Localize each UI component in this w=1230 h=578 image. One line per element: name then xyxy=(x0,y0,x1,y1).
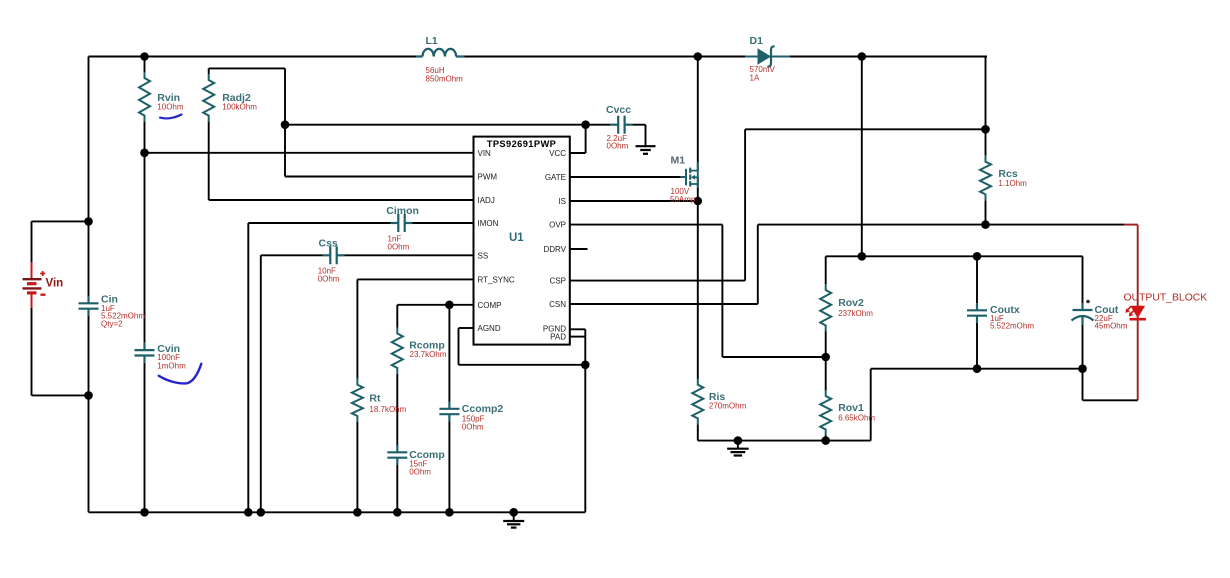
svg-text:18.7kOhm: 18.7kOhm xyxy=(369,405,406,414)
svg-text:0Ohm: 0Ohm xyxy=(409,468,431,477)
svg-text:Cvcc: Cvcc xyxy=(606,104,631,116)
svg-text:Cimon: Cimon xyxy=(386,205,419,217)
svg-text:VIN: VIN xyxy=(478,149,492,158)
svg-text:CSN: CSN xyxy=(549,300,566,309)
svg-text:1.1Ohm: 1.1Ohm xyxy=(998,179,1027,188)
svg-text:1A: 1A xyxy=(750,74,760,83)
svg-text:RT_SYNC: RT_SYNC xyxy=(478,275,515,284)
svg-text:270mOhm: 270mOhm xyxy=(709,402,747,411)
svg-text:CSP: CSP xyxy=(550,277,566,286)
svg-text:Qty=2: Qty=2 xyxy=(101,320,123,329)
svg-text:6.65kOhm: 6.65kOhm xyxy=(838,414,875,423)
svg-text:1mOhm: 1mOhm xyxy=(157,361,186,370)
svg-text:OUTPUT_BLOCK: OUTPUT_BLOCK xyxy=(1124,293,1208,304)
svg-text:IADJ: IADJ xyxy=(478,196,495,205)
svg-text:5.522mOhm: 5.522mOhm xyxy=(990,322,1034,331)
svg-text:10Ohm: 10Ohm xyxy=(157,102,184,111)
svg-text:TPS92691PWP: TPS92691PWP xyxy=(487,139,557,149)
svg-text:Ccomp2: Ccomp2 xyxy=(462,403,504,415)
svg-text:Rov2: Rov2 xyxy=(838,297,864,309)
svg-text:23.7kOhm: 23.7kOhm xyxy=(410,350,447,359)
svg-text:100kOhm: 100kOhm xyxy=(222,102,257,111)
svg-text:VCC: VCC xyxy=(549,149,566,158)
svg-text:0Ohm: 0Ohm xyxy=(462,423,484,432)
svg-text:D1: D1 xyxy=(750,35,764,47)
svg-text:U1: U1 xyxy=(509,232,524,244)
svg-text:Rov1: Rov1 xyxy=(838,402,864,414)
svg-text:AGND: AGND xyxy=(478,324,501,333)
svg-text:45mOhm: 45mOhm xyxy=(1095,322,1128,331)
svg-text:PWM: PWM xyxy=(478,173,498,182)
svg-text:M1: M1 xyxy=(671,155,686,167)
svg-text:850mOhm: 850mOhm xyxy=(426,75,464,84)
svg-text:IS: IS xyxy=(558,197,566,206)
svg-text:237kOhm: 237kOhm xyxy=(838,309,873,318)
svg-text:COMP: COMP xyxy=(478,301,502,310)
svg-text:L1: L1 xyxy=(426,35,438,47)
svg-text:0Ohm: 0Ohm xyxy=(318,275,340,284)
svg-text:Vin: Vin xyxy=(46,278,64,290)
svg-text:0Ohm: 0Ohm xyxy=(607,142,629,151)
svg-text:Css: Css xyxy=(319,238,338,250)
svg-text:0Ohm: 0Ohm xyxy=(388,243,410,252)
svg-text:IMON: IMON xyxy=(478,219,499,228)
svg-text:GATE: GATE xyxy=(545,173,566,182)
svg-text:DDRV: DDRV xyxy=(543,245,566,254)
svg-text:SS: SS xyxy=(478,251,489,260)
svg-text:PAD: PAD xyxy=(550,333,566,342)
svg-text:OVP: OVP xyxy=(549,221,566,230)
svg-text:Rt: Rt xyxy=(369,393,381,405)
svg-text:50Amp: 50Amp xyxy=(670,195,696,204)
